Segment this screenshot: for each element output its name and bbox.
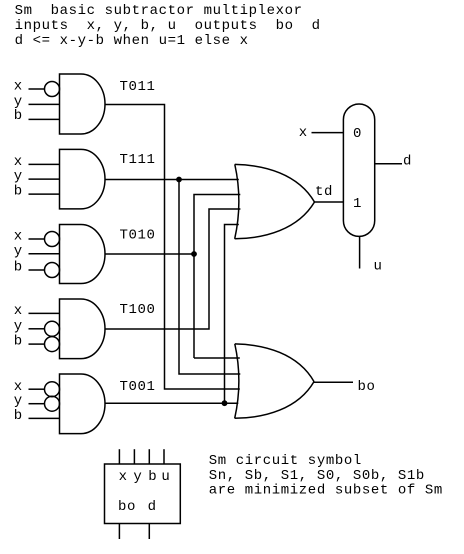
label y (T011) [14,94,23,110]
label y (T001) [14,393,23,409]
svg-text:b: b [14,260,23,276]
pin label b [148,469,157,485]
title text line 2 [15,18,321,34]
and-gate T001 [60,374,156,434]
label x (mux input) [299,125,308,141]
svg-text:1: 1 [353,196,362,212]
wire b input T011 [29,118,60,120]
pin stub bo [118,524,120,540]
svg-text:y: y [14,169,23,185]
label bo [358,379,376,395]
svg-text:d <= x-y-b when u=1 else x: d <= x-y-b when u=1 else x [15,33,249,49]
svg-text:y: y [14,243,23,259]
svg-text:td: td [315,184,333,200]
pin label u [161,469,170,485]
label x (T100) [14,303,23,319]
svg-text:x: x [14,229,23,245]
wire T010 output [105,253,194,255]
wire T001 branch to OR1 [225,225,239,404]
label b (T010) [14,260,23,276]
label x (T001) [14,379,23,395]
wire x input to mux [312,132,344,134]
input bubble T011 x [45,82,60,97]
label b (T100) [14,334,23,350]
svg-text:u: u [374,259,383,275]
wire y input T111 [29,178,60,180]
label y (T100) [14,318,23,334]
junction T111 [176,177,182,183]
and-gate T010 [60,225,156,284]
svg-text:d: d [148,499,157,515]
title text line 1 [15,3,303,19]
and-gate T111 [60,149,156,209]
label b (T111) [14,184,23,200]
and-gate T100 [60,299,156,359]
label d [403,154,412,170]
svg-text:T011: T011 [120,79,156,95]
title text line 3 [15,33,249,49]
label y (T010) [14,243,23,259]
pin stub b [148,449,150,464]
svg-text:b: b [14,108,23,124]
svg-text:u: u [161,469,170,485]
svg-text:T010: T010 [120,228,156,244]
junction T001 [222,400,228,406]
svg-text:Sm circuit symbol: Sm circuit symbol [209,453,362,469]
svg-text:Sn, Sb, S1, S0, S0b, S1b: Sn, Sb, S1, S0, S0b, S1b [209,468,425,484]
svg-text:y: y [14,318,23,334]
label y (T111) [14,169,23,185]
wire x input T111 [29,163,60,165]
and-gate T011 [60,74,156,134]
or-gate bo [235,344,314,418]
wire y input T001 [29,403,45,405]
wire T001 output to OR2 [105,402,238,404]
svg-text:x: x [119,469,128,485]
pin stub y [133,449,135,464]
wire td output to mux [315,201,344,203]
mux label 1 [353,196,362,212]
svg-text:b: b [148,469,157,485]
wire T111 output to OR1 [105,179,239,181]
pin stub x [118,449,120,464]
input bubble T001 x [45,382,60,397]
caption line 3 [209,483,443,499]
svg-text:x: x [14,79,23,95]
wire y input T100 [29,328,45,330]
svg-text:bo: bo [358,379,376,395]
input bubble T100 b [45,337,60,352]
wire y input T011 [29,103,60,105]
Sm circuit symbol box [105,464,181,524]
wire x input T001 [29,388,45,390]
svg-text:x: x [14,154,23,170]
pin label bo [118,499,136,515]
svg-text:y: y [14,393,23,409]
wire y input T010 [29,253,60,255]
pin stub d [148,524,150,540]
label u [374,259,383,275]
svg-text:0: 0 [353,126,362,142]
wire b input T111 [29,193,60,195]
svg-text:T001: T001 [120,379,156,395]
wire bo output [314,381,353,383]
svg-text:x: x [14,303,23,319]
junction T010 [191,251,197,257]
input bubble T010 b [45,263,60,278]
svg-text:T111: T111 [120,152,156,168]
wire T010 branch to OR2 [194,357,240,359]
label b (T011) [14,108,23,124]
pin label d [148,499,157,515]
wire u select [359,236,361,268]
wire b input T001 [29,417,60,419]
label x (T111) [14,154,23,170]
svg-text:are minimized subset of Sm: are minimized subset of Sm [209,483,443,499]
wire x input T100 [29,312,60,314]
label x (T011) [14,79,23,95]
wire T111 branch to OR2 [179,180,240,375]
wire T010 branch to OR1 [194,195,240,359]
label b (T001) [14,408,23,424]
svg-text:Sm basic subtractor multiplex: Sm basic subtractor multiplexor [15,3,303,19]
label x (T010) [14,229,23,245]
or-gate td [235,164,315,238]
caption line 1 [209,453,362,469]
wire x input T011 [29,88,45,90]
svg-text:bo: bo [118,499,136,515]
svg-text:b: b [14,184,23,200]
svg-text:b: b [14,408,23,424]
wire x input T010 [29,238,45,240]
svg-text:d: d [403,154,412,170]
pin label y [133,469,142,485]
wire d output [375,163,402,165]
label td [315,184,333,200]
mux label 0 [353,126,362,142]
input bubble T100 y [45,321,60,336]
svg-text:y: y [133,469,142,485]
svg-text:inputs x, y, b, u outputs b: inputs x, y, b, u outputs bo d [15,18,321,34]
pin stub u [163,449,165,464]
wire T100 output to OR1 [105,209,240,329]
input bubble T010 x [45,232,60,247]
svg-text:x: x [299,125,308,141]
svg-text:b: b [14,334,23,350]
svg-text:T100: T100 [120,302,156,318]
wire b input T100 [29,343,45,345]
wire T011 output to OR2 [105,105,240,390]
caption line 2 [209,468,425,484]
input bubble T001 y [45,396,60,411]
pin label x [119,469,128,485]
wire b input T010 [29,269,45,271]
mux body [343,104,374,236]
